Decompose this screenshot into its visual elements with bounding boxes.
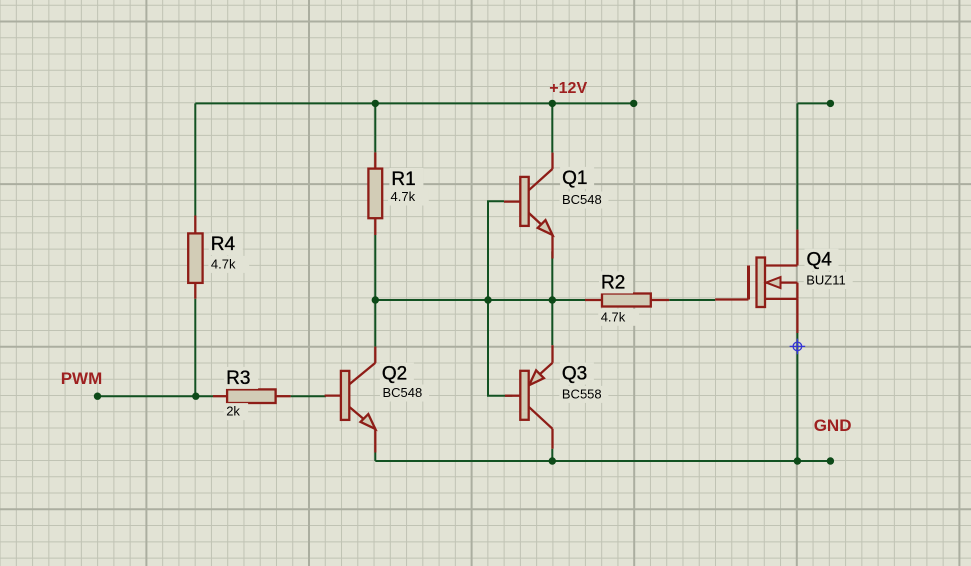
- node rail-Q1: [549, 100, 556, 107]
- node right stub end: [827, 100, 834, 107]
- R2 right pin: [651, 299, 669, 301]
- node mid-emitters: [549, 296, 556, 303]
- R1 bottom pin: [374, 218, 376, 235]
- wire R1 bottom to Q2 collector: [374, 235, 376, 347]
- wire PWM input: [98, 395, 214, 397]
- wire +12V top rail: [195, 102, 633, 104]
- svg-text:+12V: +12V: [549, 80, 587, 97]
- wire Q1 base to Q3 base: [488, 201, 512, 395]
- svg-text:Q3: Q3: [562, 364, 587, 385]
- value R1 value: [388, 189, 429, 206]
- svg-text:4.7k: 4.7k: [391, 189, 416, 204]
- node rail end: [630, 100, 637, 107]
- wire Q1 emitter to node: [551, 251, 553, 300]
- transistor Q3: [529, 363, 553, 384]
- wire rail to Q1 collector: [551, 103, 553, 152]
- label R3: [224, 367, 258, 389]
- svg-text:R3: R3: [226, 368, 250, 389]
- svg-text:BC548: BC548: [383, 385, 423, 400]
- value R2 value: [598, 309, 639, 326]
- value Q1 value: [560, 192, 609, 209]
- R4 top pin: [194, 216, 196, 234]
- value Q4 value: [804, 272, 853, 289]
- svg-text:PWM: PWM: [61, 369, 103, 388]
- wire R4 bottom to PWM node: [194, 299, 196, 397]
- wire R2 to Q4 gate: [669, 299, 715, 301]
- R4 bottom pin: [194, 283, 196, 299]
- node gnd-Q3: [549, 457, 556, 464]
- transistor Q1: [529, 169, 553, 190]
- resistor R3: [227, 389, 276, 403]
- wire rail to Q4 drain: [796, 103, 798, 229]
- label Q2: [380, 363, 414, 385]
- svg-text:4.7k: 4.7k: [211, 256, 236, 271]
- svg-text:BUZ11: BUZ11: [806, 273, 846, 288]
- svg-text:Q4: Q4: [807, 250, 833, 271]
- transistor Q4 (MOSFET BUZ11): [757, 258, 766, 308]
- R3 right pin: [276, 395, 291, 397]
- R2 left pin: [585, 299, 602, 301]
- svg-text:BC558: BC558: [562, 386, 602, 401]
- R3 left pin: [213, 395, 227, 397]
- label Q3: [560, 363, 594, 385]
- Q4 bulk stub: [765, 281, 797, 283]
- value Q3 value: [559, 386, 608, 403]
- label R4: [209, 233, 243, 255]
- value Q2 value: [380, 385, 429, 402]
- wire left vertical to R4: [194, 103, 196, 215]
- transistor Q2: [349, 363, 375, 384]
- resistor R2: [602, 294, 651, 307]
- svg-text:Q2: Q2: [382, 364, 407, 385]
- svg-text:BC548: BC548: [562, 192, 602, 207]
- Q4 source pin: [796, 299, 798, 333]
- wire ground rail: [375, 460, 831, 462]
- svg-text:2k: 2k: [226, 404, 240, 419]
- label Q1: [560, 167, 594, 189]
- wire middle node: [375, 299, 585, 301]
- wire node to Q3 emitter: [551, 300, 553, 345]
- svg-text:4.7k: 4.7k: [601, 309, 626, 324]
- value R3 value: [224, 403, 248, 420]
- value R4 value: [208, 256, 249, 273]
- svg-text:Q1: Q1: [562, 168, 587, 189]
- wire Q3 collector to ground rail: [551, 449, 553, 461]
- svg-text:R1: R1: [391, 169, 415, 190]
- node PWM-R4 junction: [192, 393, 199, 400]
- node marker (blue): [790, 339, 806, 355]
- resistor R1: [368, 169, 382, 219]
- node gnd end: [827, 457, 834, 464]
- wire Q4 source to ground: [796, 333, 798, 461]
- label Q4: [805, 249, 839, 271]
- svg-text:GND: GND: [814, 416, 852, 435]
- svg-text:R2: R2: [601, 272, 625, 293]
- R1 top pin: [374, 152, 376, 168]
- Q4 gate pin: [715, 298, 748, 300]
- node PWM terminal: [94, 393, 101, 400]
- resistor R4: [188, 233, 202, 283]
- Q4 bulk arrow: [766, 277, 780, 288]
- label R2: [599, 271, 633, 293]
- wire rail to R1 top: [374, 103, 376, 152]
- Q4 bulk-source tie: [796, 283, 798, 299]
- svg-text:R4: R4: [211, 234, 236, 255]
- Q4 drain stub: [765, 264, 797, 266]
- node mid-base: [484, 296, 491, 303]
- wire top right stub: [797, 102, 830, 104]
- node mid-R1/Q2: [372, 296, 379, 303]
- node rail-R1: [372, 100, 379, 107]
- label R1: [389, 168, 423, 190]
- Q4 source stub: [765, 298, 797, 300]
- Q4 drain pin: [796, 230, 798, 266]
- wire R3 to Q2 base: [291, 395, 326, 397]
- node gnd-Q4: [794, 457, 801, 464]
- wire Q2 emitter to ground rail: [374, 453, 376, 462]
